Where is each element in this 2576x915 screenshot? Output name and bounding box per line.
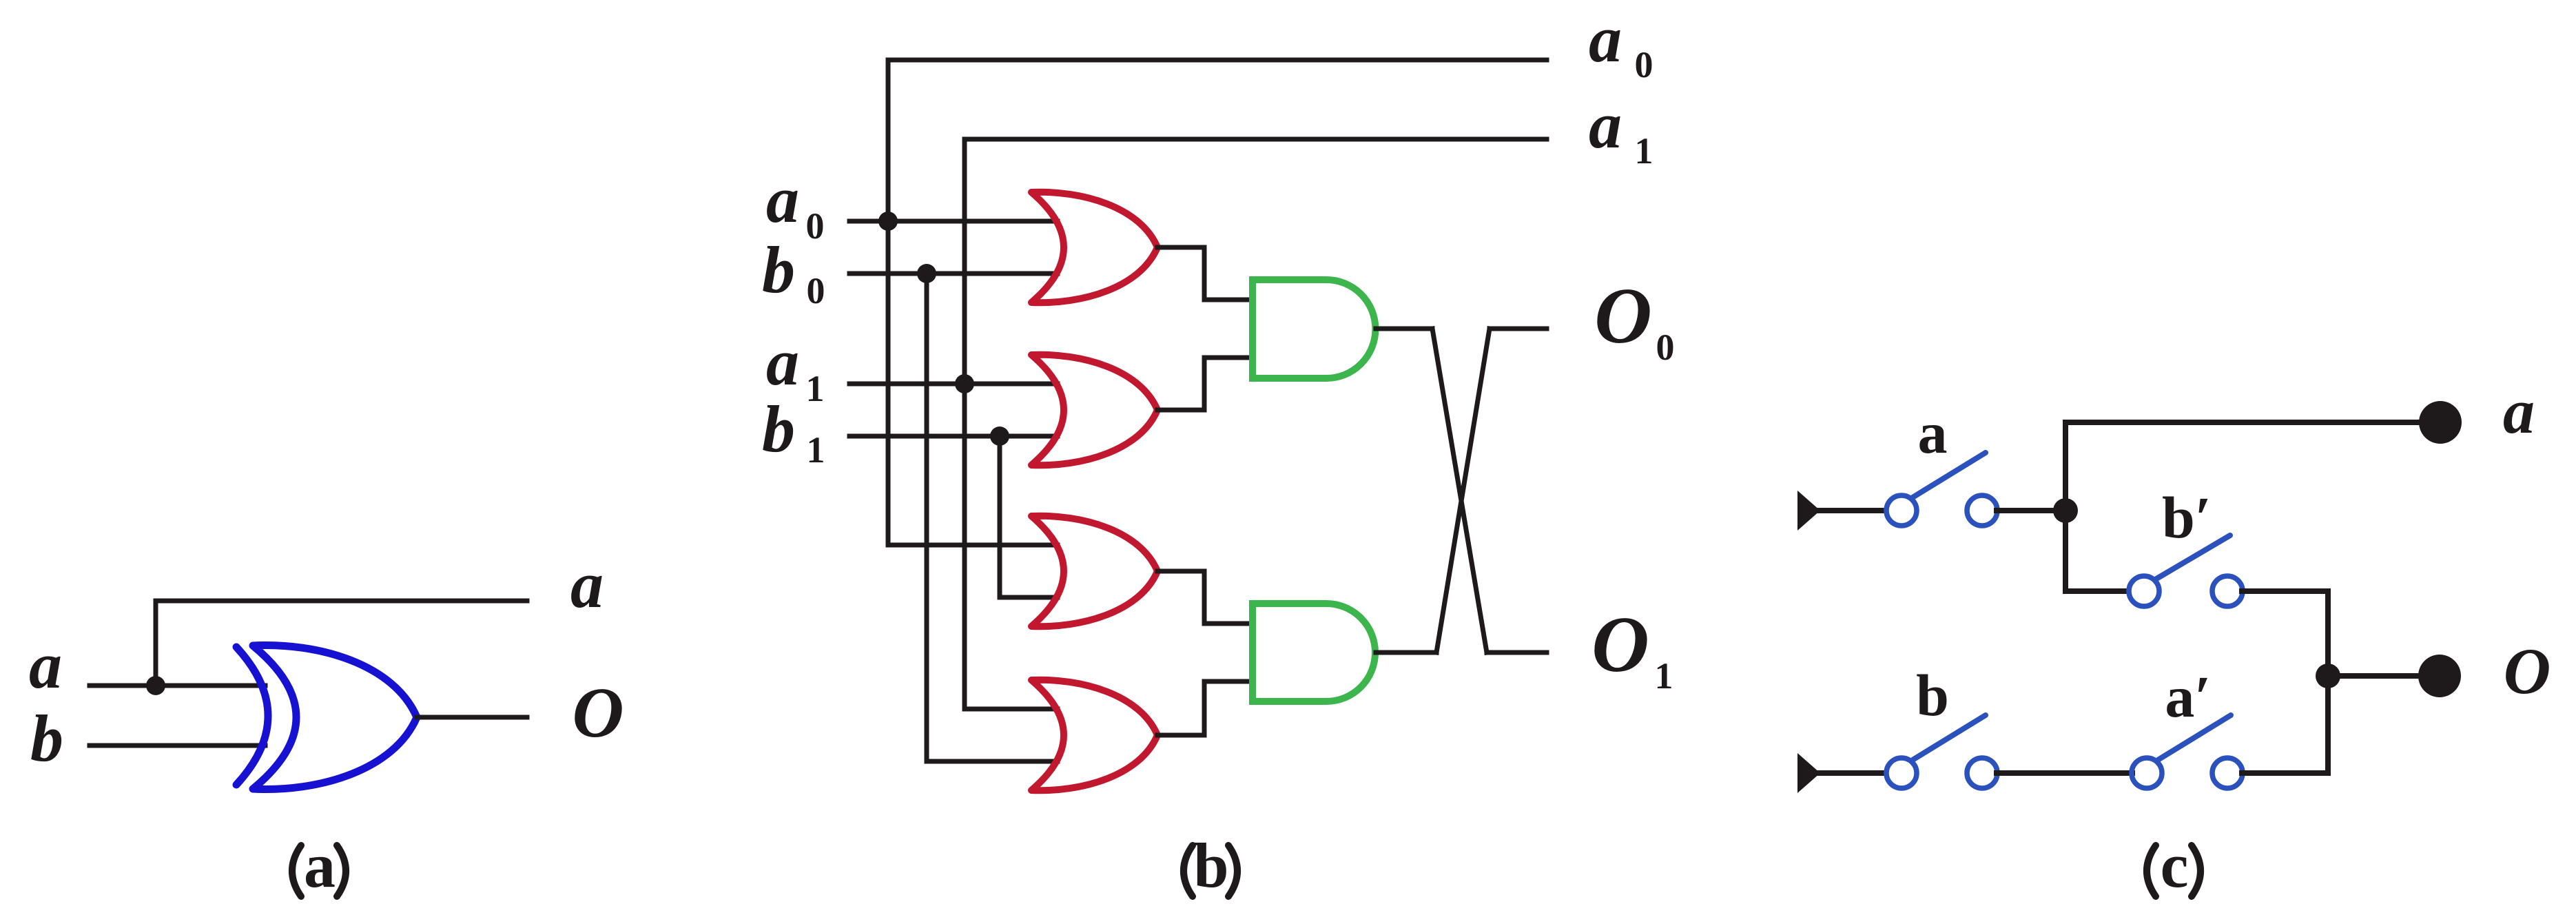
wire switch b to switch a' [1997, 770, 2132, 776]
wire a output rail [2065, 420, 2422, 425]
node O1 (output label) [1591, 601, 1673, 697]
junction b1 [990, 426, 1009, 446]
svg-text:b′: b′ [2162, 484, 2212, 551]
svg-text:b: b [762, 392, 795, 466]
wire O0 output [1490, 327, 1547, 331]
node a0 (top right label) [1589, 2, 1653, 85]
node a0 (left input label) [766, 163, 825, 247]
wire b1 input [849, 434, 1058, 439]
wire a1 input [849, 382, 1058, 387]
junction node (row a) [2053, 498, 2078, 523]
wire switch a to junction [1997, 508, 2065, 513]
wire branch to output a [156, 599, 527, 604]
junction a0 [878, 212, 898, 231]
svg-text:1: 1 [806, 368, 825, 409]
svg-text:0: 0 [1656, 327, 1675, 368]
wire O output [417, 715, 527, 720]
caption (c) [2147, 845, 2201, 896]
wire OR1 output to AND1 [1157, 247, 1252, 300]
or-gate OR3 (red) [1031, 516, 1157, 626]
svg-text:0: 0 [1635, 44, 1653, 85]
node a1 (top right label) [1589, 88, 1653, 172]
junction node O [2316, 664, 2340, 688]
wire cross descending (AND1 to O1) [1432, 329, 1487, 652]
junction dot on a [146, 676, 165, 695]
wire OR4 top input from a1 vertical [965, 707, 1058, 712]
wire right vertical (b' row to bottom row) [2325, 591, 2331, 773]
svg-text:O: O [1594, 272, 1652, 360]
switch a (blue) [1886, 453, 1997, 526]
wire switch a' to right vertical [2242, 770, 2328, 776]
wire O1 output [1487, 650, 1547, 655]
wire b input [90, 743, 265, 748]
wire to switch b [1819, 770, 1885, 776]
svg-text:a: a [2503, 376, 2535, 446]
svg-text:a: a [304, 830, 336, 901]
svg-text:a: a [766, 325, 799, 399]
wire a input [90, 683, 265, 688]
wire to terminal O [2328, 673, 2420, 679]
svg-text:1: 1 [807, 429, 825, 471]
junction a1 [955, 374, 974, 393]
svg-text:0: 0 [806, 205, 825, 247]
wire to switch b' [2065, 588, 2127, 594]
node b1 (left input label) [762, 392, 825, 471]
wire OR2 output to AND1 [1157, 358, 1252, 410]
wire a1 feedthrough (corner + second rail) [965, 139, 1547, 709]
svg-text:b: b [1916, 662, 1949, 728]
svg-text:1: 1 [1655, 655, 1673, 697]
wire switch b' to right vertical [2242, 588, 2328, 594]
or-gate OR1 (red) [1031, 192, 1157, 302]
switch b' (blue) [2129, 535, 2243, 606]
svg-text:O: O [1591, 601, 1649, 689]
wire OR3 output to AND2 [1157, 571, 1252, 624]
or-gate OR4 (red) [1031, 680, 1157, 790]
svg-text:a: a [1589, 88, 1622, 162]
xor gate U1 (blue) [236, 645, 417, 789]
svg-text:a′: a′ [2165, 664, 2211, 730]
svg-text:c: c [2161, 830, 2189, 901]
wire branch vertical [154, 601, 158, 686]
svg-text:b: b [30, 701, 63, 775]
wire a0 input [849, 219, 1058, 224]
wire cross ascending (AND2 to O0) [1436, 329, 1490, 652]
wire junction vertical (up to a rail, down to b' row) [2063, 422, 2068, 591]
switch a' (blue) [2132, 715, 2243, 788]
svg-text:a: a [570, 548, 604, 621]
PART B [762, 2, 1675, 901]
node O0 (output label) [1594, 272, 1674, 368]
terminal a (filled circle) [2419, 401, 2462, 444]
wire b0 vertical to OR4 [927, 274, 1058, 761]
PART C [1797, 376, 2551, 901]
svg-text:a: a [1918, 400, 1948, 466]
or-gate OR2 (red) [1031, 355, 1157, 465]
node b0 (left input label) [762, 233, 825, 311]
node a1 (left input label) [766, 325, 825, 409]
input terminal triangle (bottom row) [1797, 753, 1820, 793]
wire b1 vertical to OR3 [1000, 436, 1058, 597]
wire AND1 output [1376, 327, 1432, 331]
and-gate AND2 (green) [1253, 604, 1375, 701]
switch b (blue) [1886, 715, 1997, 788]
svg-text:1: 1 [1635, 130, 1653, 172]
svg-text:O: O [572, 673, 624, 752]
svg-text:b: b [762, 233, 795, 307]
svg-text:a: a [1589, 2, 1622, 76]
PART A [29, 548, 624, 901]
svg-text:O: O [2504, 635, 2551, 708]
svg-text:a: a [766, 163, 799, 236]
wire OR4 output to AND2 [1157, 681, 1252, 735]
caption (b) [1184, 845, 1237, 896]
junction b0 [917, 264, 936, 283]
wire OR3 top input from a0 vertical [888, 543, 1058, 548]
wire b0 input [849, 271, 1058, 276]
svg-text:a: a [29, 628, 62, 702]
terminal O (filled circle) [2418, 655, 2461, 697]
input terminal triangle (top row) [1797, 491, 1820, 531]
caption (a) [292, 845, 346, 896]
wire to switch a [1819, 508, 1885, 513]
svg-text:b: b [1193, 830, 1228, 901]
wire AND2 output [1376, 650, 1436, 655]
and-gate AND1 (green) [1253, 280, 1375, 378]
svg-text:0: 0 [807, 270, 825, 311]
wire a0 feedthrough (corner + top rail) [888, 60, 1547, 545]
